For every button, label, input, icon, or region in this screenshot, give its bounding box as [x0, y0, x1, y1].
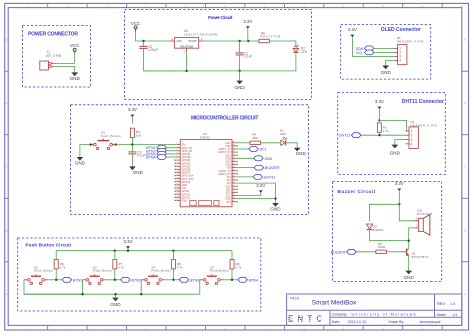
wire [186, 52, 188, 71]
svg-text:4: 4 [399, 59, 401, 63]
svg-text:Smart MediBox: Smart MediBox [312, 300, 357, 307]
wire [131, 138, 133, 145]
svg-text:3.3V: 3.3V [243, 19, 252, 24]
wire [116, 144, 177, 146]
junction [378, 134, 380, 136]
junction [185, 70, 187, 72]
title block frame [287, 294, 462, 325]
svg-text:C: C [5, 165, 7, 169]
wire [127, 249, 129, 251]
wire [386, 60, 394, 65]
net label BTN2 [146, 148, 166, 153]
svg-text:GND: GND [381, 70, 392, 75]
junction [131, 143, 133, 145]
svg-text:D: D [5, 101, 7, 105]
svg-text:VIN: VIN [176, 39, 181, 43]
resistor R0 [259, 31, 281, 42]
svg-text:25: 25 [232, 185, 234, 187]
ground (OLED) [381, 66, 392, 76]
svg-text:4: 4 [176, 153, 177, 155]
svg-text:3.3V: 3.3V [128, 107, 137, 112]
svg-text:GND: GND [110, 302, 121, 307]
block: Microcontroller Circuit [71, 105, 309, 215]
svg-text:Sheet:: Sheet: [437, 313, 447, 317]
ground (buttons) [110, 298, 121, 307]
svg-text:34: 34 [232, 157, 234, 159]
svg-text:Push Button Circuit: Push Button Circuit [25, 243, 71, 248]
wire [114, 269, 116, 280]
wire [48, 279, 62, 281]
svg-text:33: 33 [232, 160, 234, 162]
svg-text:Drawn By:: Drawn By: [389, 320, 405, 324]
ENTC logo [287, 314, 325, 323]
power flag 3.3V (R2 pull-up) [128, 107, 137, 117]
svg-text:BTN3: BTN3 [190, 278, 200, 282]
push button S2 [24, 265, 53, 284]
wire [74, 53, 76, 63]
svg-text:Company:: Company: [332, 313, 348, 317]
wire [387, 251, 401, 253]
junction [114, 250, 116, 252]
junction [247, 40, 249, 42]
block: Power Connector [23, 26, 91, 88]
resistor R8 [171, 260, 183, 270]
net label SDA [254, 156, 273, 161]
svg-text:26: 26 [232, 182, 234, 184]
svg-text:3.3V: 3.3V [348, 27, 357, 32]
wire [107, 279, 121, 281]
block: Push Button Circuit [18, 238, 261, 311]
junction [127, 250, 129, 252]
junction [172, 279, 174, 281]
frame row ticks and letters [5, 38, 469, 296]
svg-text:C: C [464, 165, 466, 169]
svg-text:Power Circuit: Power Circuit [208, 15, 233, 20]
svg-text:University of Moratuwa: University of Moratuwa [352, 312, 416, 316]
svg-text:DHT11: DHT11 [339, 134, 350, 138]
svg-text:4.7k: 4.7k [118, 265, 124, 269]
ground [70, 72, 81, 81]
wire [231, 251, 233, 260]
svg-text:20: 20 [232, 200, 234, 202]
svg-text:24: 24 [232, 188, 234, 190]
svg-text:OLED Connector: OLED Connector [381, 27, 421, 33]
wire [236, 148, 249, 150]
svg-text:5: 5 [176, 156, 177, 158]
svg-text:1N4001: 1N4001 [373, 228, 384, 232]
svg-text:10k: 10k [136, 133, 141, 137]
svg-text:220Ω: 220Ω [378, 245, 386, 249]
svg-text:Buzzer Circuit: Buzzer Circuit [338, 189, 376, 194]
svg-text:TITLE:: TITLE: [290, 297, 300, 301]
wire [231, 269, 233, 280]
wire [356, 251, 376, 253]
junction [231, 279, 233, 281]
wire [166, 147, 176, 149]
svg-text:4.7k: 4.7k [383, 129, 389, 133]
svg-text:3.3V: 3.3V [256, 183, 265, 188]
wire [55, 251, 57, 260]
svg-text:VOUT: VOUT [188, 39, 197, 43]
junction [274, 197, 276, 199]
power flag 3.3V (buttons) [123, 239, 132, 249]
svg-text:16: 16 [176, 190, 178, 192]
junction [238, 40, 240, 42]
wire [203, 40, 259, 42]
svg-text:2022-12-10: 2022-12-10 [348, 320, 366, 324]
ground (buzzer) [404, 271, 415, 281]
svg-text:23: 23 [232, 191, 234, 193]
net label BTN4 [146, 155, 166, 160]
svg-text:GND: GND [75, 161, 86, 166]
wire [24, 293, 200, 295]
junction [55, 279, 57, 281]
wire [239, 55, 241, 71]
junction [140, 293, 142, 295]
svg-text:32: 32 [232, 163, 234, 165]
wire [378, 109, 380, 118]
svg-text:31: 31 [232, 166, 234, 168]
wire [236, 199, 276, 203]
ground (DHT11) [390, 145, 401, 156]
svg-text:9: 9 [176, 168, 177, 170]
svg-text:0.33uF: 0.33uF [148, 48, 158, 52]
junction [378, 119, 380, 121]
svg-text:3.3V: 3.3V [123, 239, 132, 244]
svg-text:6: 6 [176, 159, 177, 161]
svg-text:BTN4: BTN4 [249, 278, 258, 282]
resistor R6 [54, 260, 66, 270]
net label BTN1 [146, 145, 166, 150]
svg-text:3.3V: 3.3V [375, 99, 384, 104]
svg-text:BUZZER: BUZZER [265, 166, 280, 170]
svg-text:E: E [5, 38, 7, 42]
wire [399, 204, 418, 221]
svg-text:ADJ/GND: ADJ/GND [180, 45, 194, 49]
svg-text:VCC: VCC [131, 21, 140, 26]
resistor R7 [113, 260, 125, 270]
svg-text:BUZZER: BUZZER [417, 212, 433, 216]
svg-text:GND: GND [404, 275, 415, 280]
header H2 HEADER_4 PIN [406, 120, 437, 148]
wire [378, 132, 380, 135]
wire [408, 255, 410, 270]
diode D3 1N4001 [367, 224, 384, 232]
svg-text:3V3: 3V3 [226, 201, 231, 204]
resistor R9 [230, 260, 242, 270]
svg-text:LM1117T-ADJ/NOPB: LM1117T-ADJ/NOPB [184, 32, 217, 36]
resistor R2 [130, 128, 141, 137]
svg-text:LED: LED [301, 50, 308, 54]
power flag 3.3V (DHT11) [375, 99, 384, 109]
wire [172, 251, 174, 260]
svg-text:SCL: SCL [260, 148, 267, 152]
wire [54, 62, 75, 64]
wire [409, 228, 415, 249]
power flag 3.3V [243, 19, 252, 29]
power flag VCC [70, 43, 79, 53]
connector J1 JST_2 PIN [40, 50, 62, 70]
svg-text:35: 35 [232, 154, 234, 156]
block: Power Circuit [125, 10, 312, 100]
net label BTN2 [121, 277, 141, 282]
wire [247, 29, 249, 41]
power flag 3.3V (OLED) [348, 27, 357, 37]
svg-text:7: 7 [176, 162, 177, 164]
LED D2 [293, 45, 308, 54]
wire [236, 176, 254, 178]
wire [417, 220, 419, 222]
wire [236, 195, 261, 197]
svg-text:36: 36 [232, 151, 234, 153]
wire [269, 41, 296, 47]
svg-text:15: 15 [176, 187, 178, 189]
microcontroller U1 ESP32 [175, 132, 238, 207]
svg-text:HEADER_4 PIN: HEADER_4 PIN [397, 39, 424, 43]
wire [236, 167, 255, 169]
wire [114, 251, 116, 260]
svg-text:4.7k: 4.7k [60, 265, 66, 269]
svg-text:B: B [464, 228, 466, 232]
power flag 3.3V (buzzer) [395, 181, 404, 191]
svg-text:HEADER_4 PIN: HEADER_4 PIN [410, 123, 437, 127]
ground (push button S1) [75, 157, 86, 166]
svg-text:22: 22 [232, 194, 234, 196]
wire [236, 157, 254, 159]
svg-text:19: 19 [176, 199, 178, 201]
wire [144, 49, 187, 71]
svg-text:BUZZER: BUZZER [331, 250, 346, 254]
svg-text:1: 1 [176, 143, 177, 145]
block: DHT11 Connector [338, 93, 446, 175]
net label SCL [249, 147, 267, 152]
svg-text:B: B [5, 228, 7, 232]
wire [55, 269, 57, 280]
svg-text:68Ω: 68Ω [252, 136, 258, 140]
svg-text:GND: GND [133, 170, 144, 175]
wire [143, 41, 145, 46]
power flag VCC [131, 21, 140, 31]
push button S3 [83, 265, 112, 284]
wire [80, 145, 91, 157]
wire [286, 143, 297, 148]
regulator U3 LM1117T-ADJ/NOPB [171, 29, 217, 54]
svg-text:Push_Button: Push_Button [151, 269, 170, 273]
svg-text:Push_Button: Push_Button [101, 134, 121, 138]
push button S4 [141, 265, 170, 284]
svg-text:BTN1: BTN1 [73, 278, 82, 282]
wire [56, 250, 232, 252]
header H1 HEADER_4 PIN [394, 36, 423, 65]
svg-text:30: 30 [232, 169, 234, 171]
wire [166, 153, 176, 155]
wire [261, 142, 281, 144]
svg-text:28: 28 [232, 176, 234, 178]
wire [370, 229, 409, 241]
svg-text:4.7k: 4.7k [177, 265, 183, 269]
junction [115, 143, 117, 145]
svg-text:1: 1 [52, 61, 53, 63]
svg-text:POWER CONNECTOR: POWER CONNECTOR [28, 31, 78, 37]
svg-text:39: 39 [232, 141, 234, 143]
svg-text:8: 8 [176, 165, 177, 167]
svg-text:GND: GND [70, 76, 81, 81]
net label SDA (OLED) [356, 46, 374, 51]
push button S5 [200, 265, 229, 284]
svg-text:11: 11 [176, 174, 178, 176]
svg-text:3: 3 [176, 149, 177, 151]
svg-text:SCL: SCL [356, 51, 363, 55]
wire [224, 279, 238, 281]
svg-text:4: 4 [411, 142, 413, 146]
wire [140, 280, 142, 294]
wire [144, 52, 296, 71]
junction [172, 250, 174, 252]
svg-text:GND: GND [296, 151, 307, 156]
wire [82, 280, 84, 294]
wire [166, 156, 176, 158]
svg-text:DHT11: DHT11 [264, 175, 275, 179]
ground (MCU) [270, 203, 281, 212]
svg-text:38: 38 [232, 145, 234, 147]
wire [379, 118, 409, 131]
svg-text:1/1: 1/1 [453, 313, 458, 317]
wire [398, 191, 400, 204]
svg-text:D: D [464, 101, 466, 105]
ground [234, 81, 245, 91]
svg-text:27: 27 [232, 179, 234, 181]
net label BUZZER [254, 165, 280, 170]
svg-text:E: E [464, 38, 466, 42]
junction [114, 279, 116, 281]
svg-text:Push_Button: Push_Button [34, 269, 53, 273]
net label SCL (OLED) [356, 50, 374, 55]
junction [142, 40, 144, 42]
svg-text:BC547BTF: BC547BTF [412, 255, 429, 259]
wire [172, 269, 174, 280]
wire [54, 67, 75, 73]
wire [131, 145, 133, 152]
wire [115, 294, 117, 297]
svg-text:BTN2: BTN2 [131, 278, 140, 282]
svg-text:4.7k: 4.7k [235, 265, 241, 269]
svg-text:GND: GND [390, 151, 401, 156]
svg-text:18: 18 [176, 196, 178, 198]
svg-text:0.1uF: 0.1uF [137, 154, 145, 158]
junction [114, 293, 116, 295]
svg-text:REV:: REV: [437, 302, 446, 306]
svg-text:BTN4: BTN4 [146, 156, 155, 160]
svg-text:Date:: Date: [332, 320, 340, 324]
block: Buzzer Circuit [333, 181, 442, 281]
capacitor C1 [236, 51, 253, 58]
net label DHT11 (MCU) [253, 175, 275, 180]
svg-text:DHT11 Connector: DHT11 Connector [402, 99, 444, 105]
svg-text:13: 13 [176, 180, 178, 182]
junction [81, 293, 83, 295]
wire [236, 183, 276, 199]
svg-text:10: 10 [176, 171, 178, 173]
wire [395, 140, 406, 145]
wire [374, 47, 394, 49]
svg-text:GND: GND [182, 200, 188, 203]
wire [239, 41, 241, 52]
svg-text:37: 37 [232, 148, 234, 150]
block: OLED Connector [341, 25, 431, 80]
transistor Q1 BC547BTF [401, 248, 429, 258]
svg-text:VCC: VCC [70, 43, 79, 48]
svg-text:LED: LED [280, 132, 287, 136]
wire [166, 150, 176, 152]
wire [374, 51, 394, 53]
junction [238, 70, 240, 72]
wire [165, 279, 179, 281]
wire [361, 134, 406, 136]
junction [90, 143, 92, 145]
svg-text:0.1uF: 0.1uF [244, 55, 252, 59]
net label BTN1 [62, 277, 82, 282]
resistor R3 [377, 123, 389, 133]
svg-text:silunipasqual: silunipasqual [420, 320, 441, 324]
svg-text:14: 14 [176, 184, 178, 186]
svg-text:29: 29 [232, 172, 234, 174]
net label BTN4 [238, 277, 258, 282]
svg-text:21: 21 [232, 197, 234, 199]
svg-text:GND: GND [234, 85, 245, 90]
wire [131, 154, 133, 167]
svg-text:2: 2 [52, 64, 53, 66]
net label BTN3 [179, 277, 200, 282]
capacitor C2 [140, 45, 159, 52]
svg-text:ESP32: ESP32 [200, 135, 210, 139]
net label BTN3 [146, 152, 166, 157]
junction [398, 203, 400, 205]
resistor R5 [376, 242, 386, 254]
svg-text:2: 2 [176, 146, 177, 148]
ground (LED D1) [294, 148, 307, 156]
wire [131, 117, 133, 123]
wire [239, 71, 241, 81]
svg-text:12: 12 [176, 177, 178, 179]
wire [370, 204, 400, 221]
svg-text:A: A [5, 292, 7, 296]
wire [24, 280, 83, 294]
svg-text:MICROCONTROLLER CIRCUIT: MICROCONTROLLER CIRCUIT [191, 115, 259, 121]
svg-text:JST_2 PIN: JST_2 PIN [46, 54, 62, 58]
wire [136, 31, 171, 41]
wire [260, 193, 262, 196]
resistor R4 [250, 133, 260, 145]
svg-text:Push_Button: Push_Button [210, 269, 229, 273]
push button S1 [91, 131, 121, 150]
junction [408, 240, 410, 242]
svg-text:GND: GND [270, 207, 281, 212]
LED D1 [280, 129, 287, 146]
net label BUZZER (buzzer) [331, 249, 357, 254]
wire [236, 142, 251, 144]
wire [352, 37, 394, 56]
svg-text:SDA: SDA [264, 157, 272, 161]
ground (C3) [129, 166, 144, 175]
power flag 3.3V (MCU VDD) [256, 183, 265, 193]
svg-text:1.0: 1.0 [450, 302, 455, 306]
wire [199, 280, 201, 294]
svg-text:3.3V: 3.3V [395, 181, 404, 186]
svg-text:A: A [464, 292, 466, 296]
svg-text:Push_Button: Push_Button [93, 269, 112, 273]
capacitor C3 [128, 150, 145, 157]
svg-text:RESISTOR: RESISTOR [260, 35, 281, 39]
